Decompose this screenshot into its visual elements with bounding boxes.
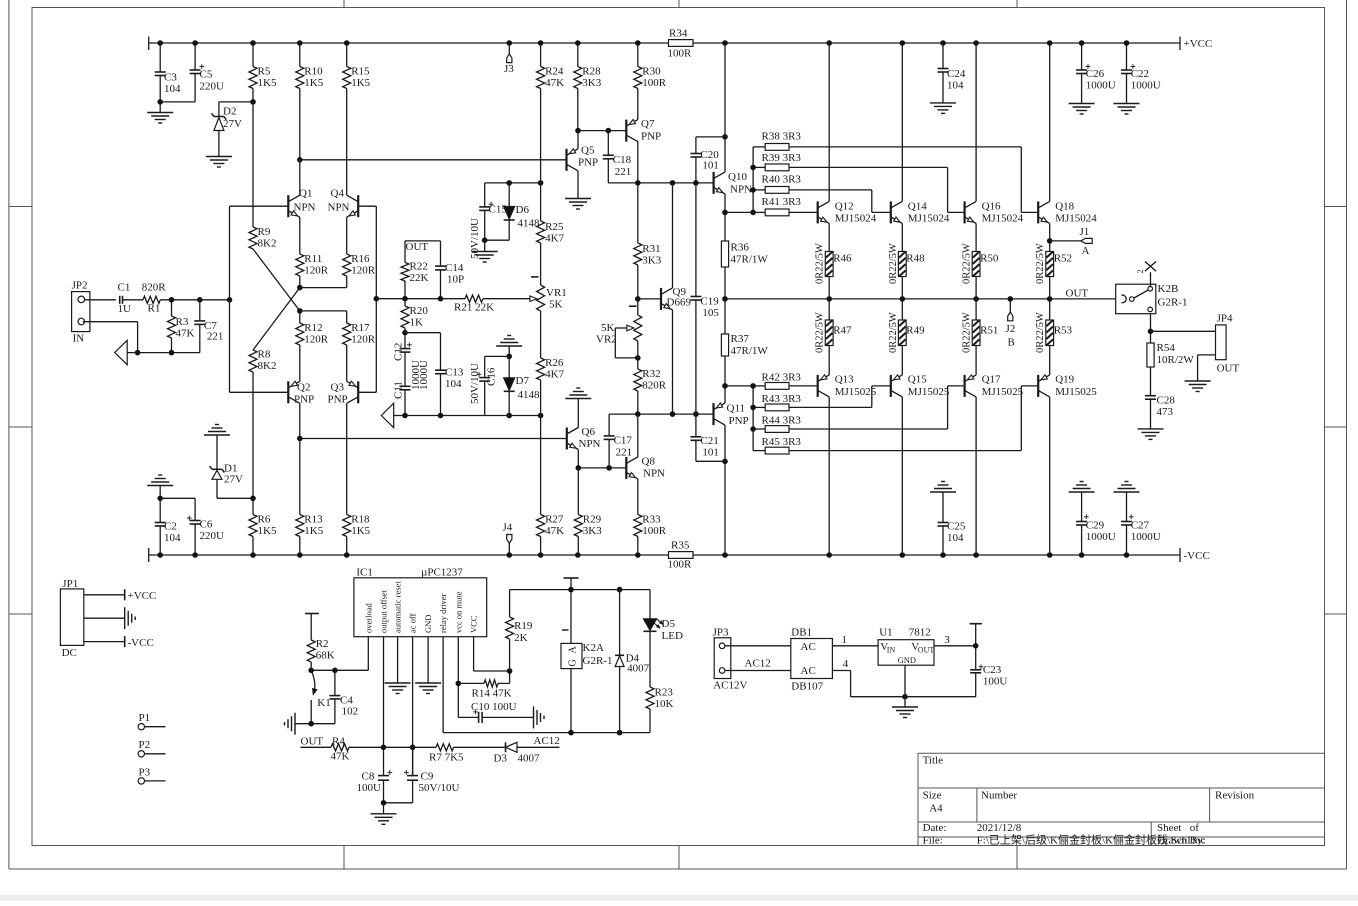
svg-text:3K3: 3K3 [642, 255, 661, 267]
svg-text:File:: File: [923, 835, 943, 847]
svg-text:OUT: OUT [1066, 288, 1089, 300]
svg-text:Q13: Q13 [835, 374, 854, 386]
svg-text:G2R-1: G2R-1 [583, 655, 613, 667]
resistor R48 [888, 243, 925, 299]
wire JP4 pin2 [1198, 355, 1216, 381]
svg-text:R32: R32 [642, 368, 660, 380]
pin P3 [138, 766, 165, 784]
wire Q7 collector [637, 142, 639, 183]
svg-text:7812: 7812 [909, 627, 931, 639]
ground under C3 [147, 102, 173, 123]
svg-text:104: 104 [164, 83, 181, 95]
no-connect cross [1136, 262, 1156, 288]
svg-text:105: 105 [702, 307, 719, 319]
svg-text:47R/1W: 47R/1W [731, 345, 769, 357]
wire Q13 collector [828, 397, 830, 555]
title block lines [918, 753, 1325, 845]
wire driver bottom [609, 411, 713, 417]
resistor R53 [1035, 299, 1072, 375]
svg-text:0R22/5W: 0R22/5W [962, 243, 973, 284]
wire bias bottom node [396, 413, 543, 419]
pin P2 [138, 739, 165, 757]
ground under C15 [472, 240, 498, 262]
wire IC1 relay driver pin [443, 637, 650, 736]
svg-text:C5: C5 [200, 69, 213, 81]
wire C16 top [485, 354, 512, 360]
svg-text:R17: R17 [351, 322, 370, 334]
resistor R19 [506, 590, 533, 671]
svg-text:Size: Size [923, 790, 942, 802]
svg-text:47K: 47K [176, 328, 195, 340]
wire IC1 overload pin [308, 637, 368, 673]
capacitor C29 [1076, 492, 1116, 555]
svg-text:C24: C24 [947, 68, 966, 80]
wire emitter bridge upper [297, 285, 347, 291]
svg-text:50V/10U: 50V/10U [469, 218, 481, 259]
wire IC1 output offset pin [381, 637, 387, 776]
ground above D1 [204, 425, 230, 436]
svg-text:C13: C13 [445, 367, 464, 379]
svg-text:R48: R48 [906, 253, 925, 265]
wire driver top [608, 180, 713, 186]
wire JP2 pin1 [85, 299, 116, 301]
svg-text:1K5: 1K5 [304, 77, 323, 89]
svg-text:D6: D6 [516, 204, 530, 216]
svg-text:OUT: OUT [1217, 363, 1240, 375]
svg-text:ac off: ac off [408, 613, 418, 633]
wire Q18 emitter [1049, 223, 1051, 251]
svg-text:JP1: JP1 [62, 578, 78, 590]
svg-text:47K: 47K [545, 525, 564, 537]
transistor Q3 [328, 381, 359, 405]
net label OUT feedback [405, 241, 441, 253]
resistor R18 [343, 514, 371, 556]
capacitor C27 [1121, 492, 1161, 555]
test point J1 [1047, 226, 1092, 257]
svg-text:IC1: IC1 [356, 567, 373, 579]
wire Q10 collector [724, 43, 726, 172]
svg-text:4007: 4007 [627, 663, 650, 675]
top rail junction dots [157, 40, 1129, 46]
wire base bus upper [725, 147, 756, 215]
test point J3 [504, 43, 514, 75]
svg-text:IN: IN [887, 646, 896, 655]
svg-text:C14: C14 [445, 262, 464, 274]
svg-text:OUT: OUT [406, 241, 429, 253]
svg-text:NPN: NPN [328, 202, 350, 214]
ground under D2 [206, 157, 232, 168]
transistor Q10 [714, 171, 752, 196]
wire U1 gnd [904, 665, 906, 697]
svg-text:R23: R23 [655, 687, 674, 699]
svg-text:C23: C23 [983, 664, 1002, 676]
svg-text:NPN: NPN [643, 468, 665, 480]
svg-text:1K5: 1K5 [258, 77, 277, 89]
svg-text:R25: R25 [545, 221, 564, 233]
svg-text:VR2: VR2 [596, 334, 617, 346]
wire to JP4 [1151, 330, 1216, 332]
svg-text:R54: R54 [1157, 342, 1176, 354]
resistor R38 [753, 131, 1038, 213]
ground above C27 [1114, 482, 1140, 493]
resistor R32 [634, 358, 667, 414]
resistor R39 [753, 152, 965, 212]
svg-text:A4: A4 [929, 803, 943, 815]
wire R9 diagonal [253, 249, 300, 311]
ground under C24 [930, 103, 956, 114]
svg-text:Q6: Q6 [582, 426, 596, 438]
resistor R25 [537, 183, 565, 285]
svg-text:K2A: K2A [583, 642, 604, 654]
resistor R40 [753, 174, 891, 213]
resistor R20 [401, 299, 428, 333]
resistor R8 [249, 349, 276, 499]
diode D4 [615, 590, 650, 733]
svg-text:R36: R36 [731, 242, 750, 254]
svg-text:47K: 47K [331, 751, 350, 763]
svg-text:C16: C16 [486, 367, 498, 386]
svg-text:R49: R49 [906, 325, 925, 337]
svg-text:vcc on mute: vcc on mute [453, 591, 463, 633]
svg-text:AC: AC [801, 641, 816, 653]
resistor R23 [646, 631, 674, 732]
svg-text:D2: D2 [223, 106, 236, 118]
wire DB1 pin1 [832, 634, 878, 646]
svg-text:Date:: Date: [923, 822, 947, 834]
svg-text:R2: R2 [316, 638, 329, 650]
capacitor C6 [187, 498, 224, 555]
test point J4 [503, 522, 513, 556]
resistor R29 [574, 468, 602, 555]
svg-text:R8: R8 [258, 349, 271, 361]
svg-text:C9: C9 [421, 771, 434, 783]
svg-text:B: B [1008, 337, 1015, 349]
svg-text:1K5: 1K5 [304, 525, 323, 537]
ground under U1 [892, 697, 918, 718]
wire JP3 pin2 [725, 658, 791, 671]
svg-text:Q8: Q8 [642, 456, 656, 468]
capacitor C26 [1076, 43, 1116, 104]
svg-text:0R22/5W: 0R22/5W [815, 243, 826, 284]
svg-text:10P: 10P [447, 274, 464, 286]
svg-text:R42 3R3: R42 3R3 [762, 372, 802, 384]
svg-text:R21 22K: R21 22K [454, 302, 494, 314]
capacitor C10 [458, 701, 533, 723]
svg-text:120R: 120R [351, 334, 376, 346]
wire Q9 emitter [672, 310, 674, 414]
relay coil K2A [561, 578, 612, 733]
resistor R5 [249, 43, 277, 105]
svg-text:JP3: JP3 [713, 627, 729, 639]
svg-text:R24: R24 [545, 66, 564, 78]
wire Q5 emitter [575, 128, 581, 149]
svg-text:4K7: 4K7 [545, 233, 564, 245]
svg-text:C17: C17 [614, 435, 633, 447]
transistor Q16 [965, 201, 1024, 225]
wire Q5 collector [577, 171, 579, 199]
svg-text:221: 221 [615, 166, 632, 178]
wire Q11 emitter [722, 383, 728, 403]
svg-text:J3: J3 [504, 63, 514, 75]
svg-text:R16: R16 [351, 253, 370, 265]
svg-text:R5: R5 [258, 66, 271, 78]
svg-text:A: A [568, 646, 579, 654]
svg-text:C1: C1 [118, 282, 131, 294]
svg-text:output offset: output offset [379, 589, 389, 633]
svg-text:Q7: Q7 [641, 118, 655, 130]
resistor R37 [721, 299, 768, 386]
svg-text:R18: R18 [351, 514, 370, 526]
svg-text:47K: 47K [545, 77, 564, 89]
ground under C28 [1138, 429, 1164, 440]
relay contact K2B [1116, 283, 1188, 314]
svg-text:PNP: PNP [729, 415, 749, 427]
svg-text:1U: 1U [118, 303, 132, 315]
wire Q1 collector to Q5 base [300, 159, 567, 161]
svg-text:IN: IN [73, 333, 85, 345]
diode D7 [504, 356, 540, 415]
ground above C2 [147, 475, 173, 498]
svg-text:R22: R22 [410, 261, 428, 273]
svg-text:R10: R10 [304, 66, 323, 78]
svg-text:1000U: 1000U [418, 360, 430, 390]
wire DB1 pin4 [832, 658, 975, 700]
svg-text:R3: R3 [176, 316, 189, 328]
svg-text:0R22/5W: 0R22/5W [888, 243, 899, 284]
capacitor C13 [435, 333, 464, 416]
wire Q5-Q7 base link [578, 128, 626, 134]
wire Q6-Q8 base link [578, 465, 626, 471]
test point J2 [1006, 299, 1016, 349]
ground under C8 [371, 800, 397, 824]
ground left of K1 [285, 713, 312, 735]
svg-text:Q17: Q17 [982, 374, 1001, 386]
svg-text:K1: K1 [317, 697, 330, 709]
resistor R47 [815, 299, 852, 375]
svg-text:R27: R27 [545, 514, 564, 526]
analog ground triangle input [115, 340, 138, 364]
wire IC1 vcc on mute pin [456, 637, 462, 718]
svg-text:R47: R47 [833, 325, 852, 337]
wire emitter bridge lower [297, 308, 347, 314]
svg-text:GND: GND [898, 655, 916, 665]
svg-text:R4: R4 [332, 736, 345, 748]
zener diode D1 [210, 435, 253, 498]
ground under JP4 [1185, 381, 1211, 392]
svg-text:2K: 2K [514, 632, 528, 644]
svg-text:D7: D7 [516, 375, 530, 387]
wire JP1 +VCC [84, 589, 157, 602]
svg-text:overload: overload [363, 603, 373, 633]
capacitor C22 [1121, 43, 1161, 104]
IC U-PC1237 body [354, 567, 487, 637]
svg-text:50V/10U: 50V/10U [469, 363, 481, 404]
capacitor C17 [604, 414, 633, 468]
svg-text:-VCC: -VCC [1184, 550, 1210, 562]
svg-text:JP2: JP2 [72, 280, 88, 292]
svg-text:D669: D669 [667, 297, 692, 309]
transistor Q8 [626, 456, 665, 480]
node R20 bottom [402, 330, 440, 336]
wire Q19 collector [1049, 397, 1051, 555]
wire Q1/Q2 base line [230, 206, 289, 392]
svg-text:3K3: 3K3 [582, 77, 601, 89]
node C2/C6 [157, 496, 195, 502]
connector JP1 [60, 578, 83, 659]
resistor R28 [574, 43, 602, 131]
title block texts [923, 755, 1255, 847]
resistor R11 [296, 217, 329, 287]
svg-text:R19: R19 [514, 620, 533, 632]
transistor Q19 [1038, 374, 1097, 399]
capacitor C1 [118, 282, 132, 316]
resistor R49 [888, 299, 925, 375]
svg-text:104: 104 [445, 378, 462, 390]
capacitor C11 [393, 381, 411, 415]
svg-text:MJ15025: MJ15025 [982, 386, 1024, 398]
svg-text:5K: 5K [549, 299, 563, 311]
svg-text:NPN: NPN [730, 184, 752, 196]
potentiometer VR2 [596, 299, 642, 358]
svg-text:Q15: Q15 [908, 374, 927, 386]
resistor R16 [343, 217, 376, 287]
svg-text:VCC: VCC [469, 615, 479, 633]
svg-text:220U: 220U [200, 81, 225, 93]
svg-text:R31: R31 [642, 243, 660, 255]
regulator U1 7812 [878, 627, 934, 666]
wire Q15 collector [901, 397, 903, 555]
resistor R13 [296, 439, 324, 556]
svg-text:Q14: Q14 [908, 201, 927, 213]
wire JP3 pin1 [725, 645, 791, 647]
svg-text:R46: R46 [833, 253, 852, 265]
IC1 pin labels [363, 581, 478, 633]
svg-text:PNP: PNP [294, 394, 314, 406]
wire Q4/Q3 base line [358, 206, 379, 392]
svg-text:R45 3R3: R45 3R3 [762, 436, 802, 448]
svg-text:OUT: OUT [301, 736, 324, 748]
wire IC1 automatic reset pin [385, 637, 411, 694]
capacitor C2 [155, 498, 181, 555]
svg-text:R26: R26 [545, 357, 564, 369]
svg-text:R50: R50 [980, 253, 999, 265]
node C3/C5 [157, 99, 195, 105]
svg-text:Q18: Q18 [1055, 201, 1074, 213]
svg-text:4148: 4148 [518, 389, 541, 401]
svg-text:50V/10U: 50V/10U [419, 782, 460, 794]
svg-text:22K: 22K [410, 272, 429, 284]
resistor R1 [142, 282, 167, 315]
svg-text:101: 101 [702, 160, 719, 172]
transistor Q5 [567, 145, 599, 171]
capacitor C9 [384, 747, 460, 803]
wiper arrow VR1 [530, 296, 537, 302]
svg-text:1K5: 1K5 [258, 525, 277, 537]
svg-text:0R22/5W: 0R22/5W [1035, 243, 1046, 284]
resistor R34 [668, 28, 694, 60]
ground above D7 [496, 336, 522, 357]
svg-text:4007: 4007 [518, 753, 541, 765]
capacitor C23 [970, 624, 1008, 697]
svg-text:47R/1W: 47R/1W [731, 254, 769, 266]
wire base bus lower [725, 383, 756, 451]
svg-text:100R: 100R [642, 525, 667, 537]
resistor R7 [413, 744, 506, 764]
svg-text:C6: C6 [200, 519, 213, 531]
wire Q14 collector [901, 43, 903, 201]
wire Q16 collector [975, 43, 977, 201]
svg-text:MJ15024: MJ15024 [835, 213, 877, 225]
svg-text:10R/2W: 10R/2W [1157, 354, 1195, 366]
resistor R30 [634, 43, 667, 120]
resistor R54 [1147, 342, 1194, 396]
resistor R31 [634, 183, 662, 302]
svg-text:AC12V: AC12V [713, 680, 747, 692]
wire Q9 collector [672, 183, 674, 288]
svg-text:C26: C26 [1086, 68, 1105, 80]
svg-text:P3: P3 [139, 766, 151, 778]
wire R8 diagonal [253, 288, 300, 350]
svg-text:4K7: 4K7 [545, 369, 564, 381]
svg-text:R34: R34 [669, 28, 688, 40]
wiper arrow VR2 [615, 325, 640, 361]
svg-text:Q10: Q10 [728, 171, 747, 183]
svg-text:AC: AC [801, 665, 816, 677]
svg-text:U1: U1 [879, 627, 892, 639]
bottom rail junction dots [157, 552, 1129, 558]
transistor Q11 [714, 403, 749, 428]
wire IC1 ac off pin [410, 637, 416, 776]
wire Q8 collector [637, 414, 639, 457]
svg-text:P1: P1 [139, 712, 151, 724]
svg-text:Q1: Q1 [299, 188, 312, 200]
svg-text:Q12: Q12 [835, 201, 854, 213]
svg-text:C10 100U: C10 100U [471, 701, 517, 713]
svg-text:GND: GND [423, 615, 433, 633]
svg-text:R20: R20 [410, 305, 429, 317]
svg-text:R37: R37 [731, 333, 750, 345]
svg-text:C25: C25 [947, 521, 966, 533]
wire Q18 collector [1049, 43, 1051, 201]
capacitor C25 [938, 492, 966, 555]
svg-text:AC12: AC12 [745, 658, 771, 670]
capacitor C5 [190, 43, 224, 102]
wire Q2 collector [297, 403, 303, 441]
svg-text:3K3: 3K3 [583, 525, 602, 537]
-VCC rail [149, 548, 1210, 562]
ground under C22 [1114, 104, 1140, 115]
wire input node [160, 297, 232, 303]
resistor R17 [343, 311, 376, 381]
resistor R50 [962, 243, 999, 299]
svg-text:DB107: DB107 [791, 681, 823, 693]
svg-text:D3: D3 [494, 753, 508, 765]
svg-text:8K2: 8K2 [258, 360, 277, 372]
svg-text:D5: D5 [662, 618, 676, 630]
svg-text:100R: 100R [642, 77, 667, 89]
svg-text:C22: C22 [1131, 68, 1149, 80]
capacitor C8 [357, 770, 393, 803]
svg-text:Revision: Revision [1215, 790, 1255, 802]
svg-text:Q2: Q2 [297, 382, 310, 394]
capacitor C7 [194, 300, 223, 353]
svg-text:Q16: Q16 [982, 201, 1001, 213]
transistor Q14 [891, 201, 950, 225]
transistor Q2 [288, 381, 314, 405]
wire Q17 collector [975, 397, 977, 555]
svg-text:AC12: AC12 [534, 735, 560, 747]
svg-text:120R: 120R [351, 265, 376, 277]
